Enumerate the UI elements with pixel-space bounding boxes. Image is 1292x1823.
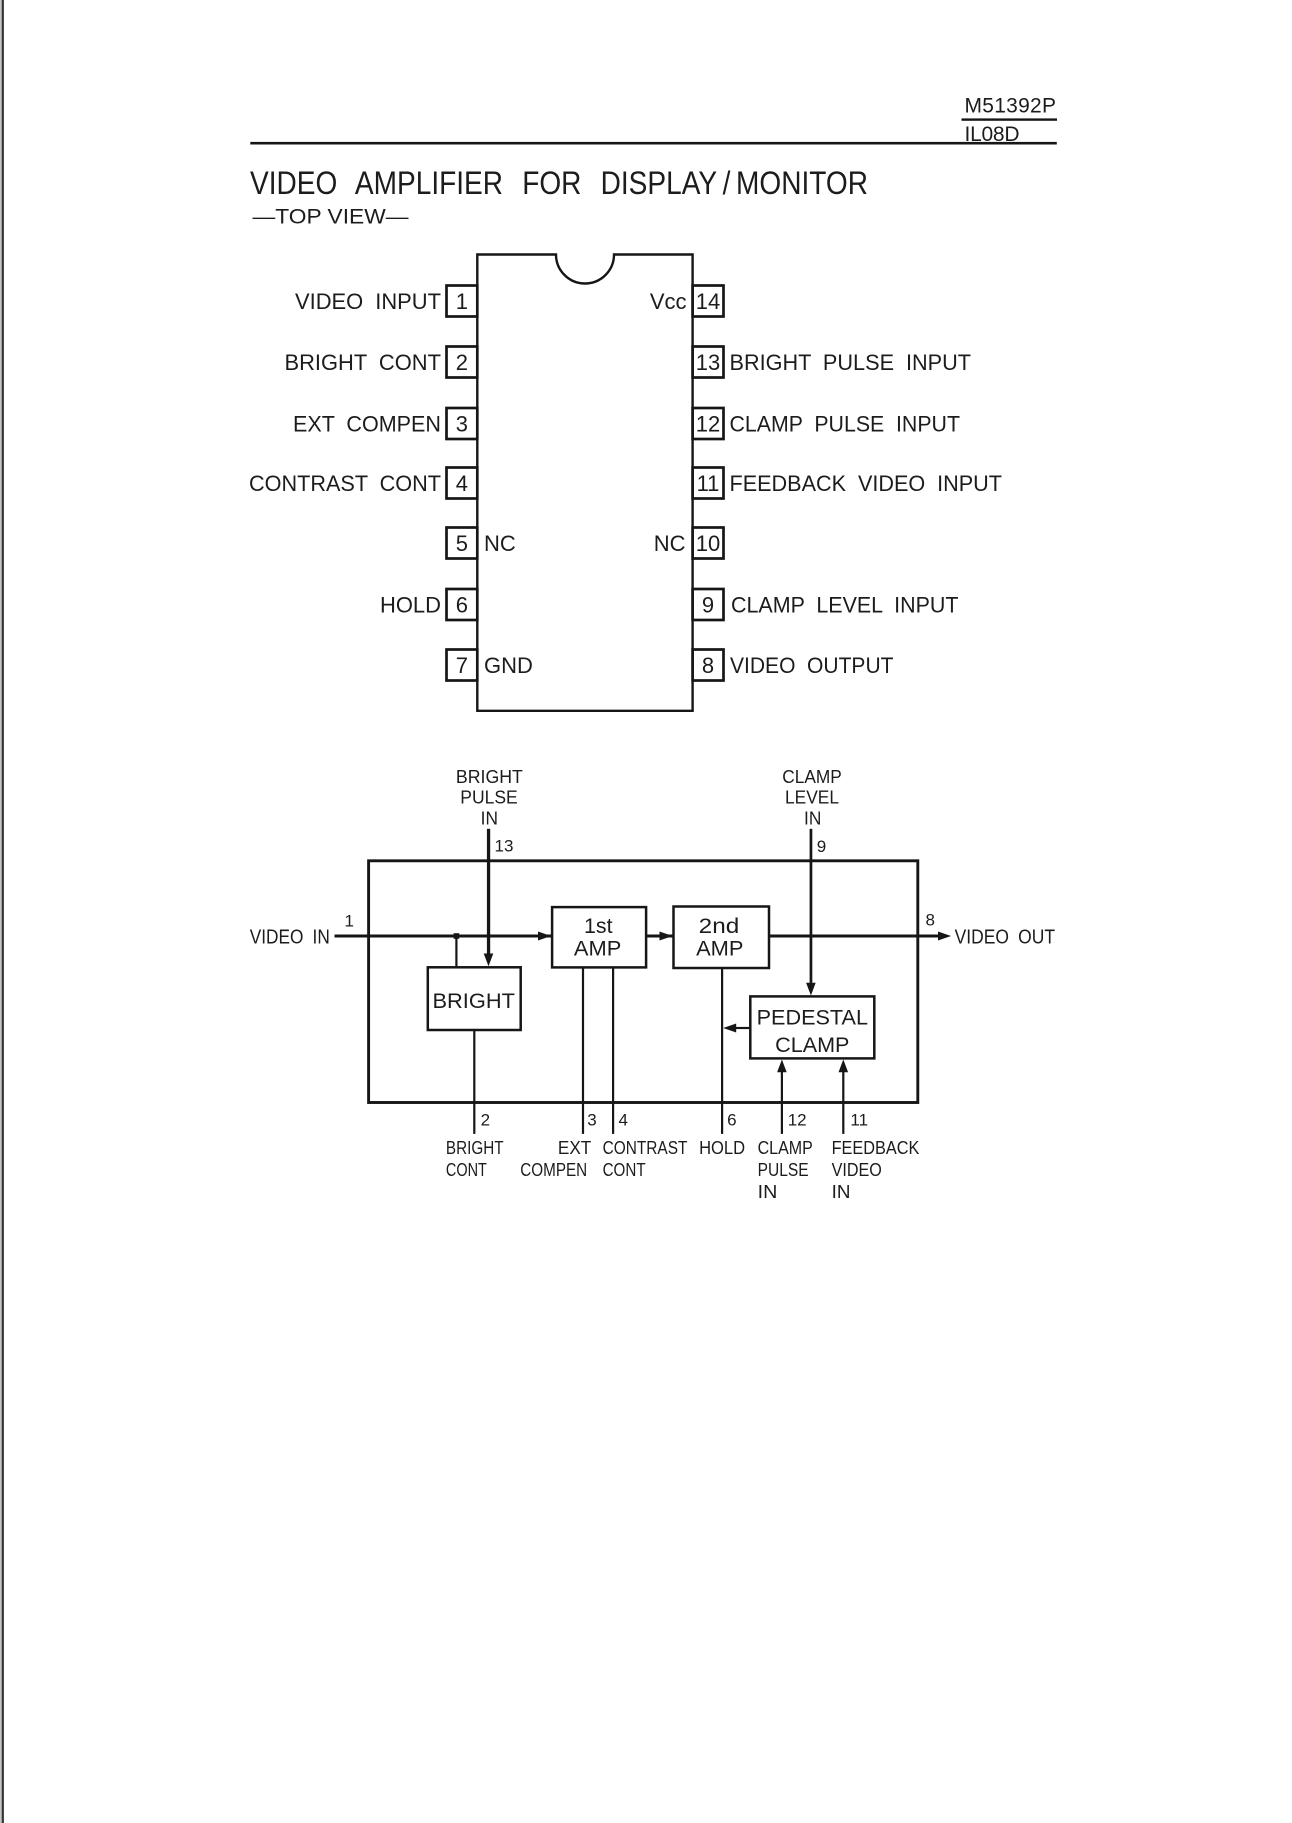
svg-text:1: 1 <box>456 289 468 314</box>
svg-text:EXT: EXT <box>558 1138 591 1158</box>
svg-text:7: 7 <box>456 653 468 678</box>
op-amp block U1a 1st AMP <box>552 907 646 967</box>
svg-text:M51392P: M51392P <box>965 95 1057 118</box>
svg-text:PEDESTAL: PEDESTAL <box>757 1006 868 1029</box>
svg-text:CONTRAST: CONTRAST <box>603 1138 688 1158</box>
underline under part number <box>962 118 1058 120</box>
svg-text:HOLD: HOLD <box>380 593 441 618</box>
pin 2 box <box>447 347 478 378</box>
svg-text:BRIGHT CONT: BRIGHT CONT <box>285 350 442 375</box>
pin 3 box <box>447 408 478 439</box>
wire pin 13 bright pulse input (thick) <box>487 829 490 956</box>
header rule <box>250 142 1057 145</box>
wire pedestal clamp to hold line <box>736 1027 750 1029</box>
svg-text:11: 11 <box>850 1111 868 1130</box>
svg-text:8: 8 <box>926 911 935 930</box>
svg-text:IN: IN <box>758 1182 778 1202</box>
svg-text:6: 6 <box>727 1111 736 1130</box>
svg-text:COMPEN: COMPEN <box>520 1160 587 1180</box>
pin 5 box <box>447 528 478 559</box>
pin 12 box <box>693 408 724 439</box>
svg-text:NC: NC <box>484 531 516 556</box>
svg-text:CONT: CONT <box>603 1160 646 1180</box>
svg-text:2: 2 <box>456 350 468 375</box>
svg-text:3: 3 <box>587 1111 596 1130</box>
svg-text:VIDEO OUTPUT: VIDEO OUTPUT <box>730 653 894 678</box>
svg-text:CONT: CONT <box>446 1160 487 1180</box>
arrow toward hold line <box>723 1024 736 1033</box>
pin 10 box <box>693 528 724 559</box>
svg-text:3: 3 <box>456 412 468 437</box>
svg-text:9: 9 <box>817 837 826 856</box>
svg-text:BRIGHT: BRIGHT <box>433 990 516 1013</box>
svg-text:12: 12 <box>788 1111 807 1130</box>
svg-text:4: 4 <box>456 471 468 496</box>
svg-text:10: 10 <box>696 531 720 556</box>
block PEDESTAL CLAMP <box>750 996 874 1058</box>
svg-text:VIDEO: VIDEO <box>832 1160 882 1180</box>
arrow into PEDESTAL CLAMP bottom (pin12) <box>777 1060 787 1073</box>
wire pin 12 clamp pulse in <box>781 1070 783 1134</box>
svg-text:8: 8 <box>702 653 714 678</box>
svg-text:PULSE: PULSE <box>758 1160 809 1180</box>
wire pin 6 hold <box>721 968 723 1134</box>
pin 6 box <box>447 589 478 620</box>
pin 4 box <box>447 468 478 499</box>
svg-text:1: 1 <box>345 912 354 931</box>
svg-text:EXT COMPEN: EXT COMPEN <box>293 412 441 437</box>
junction node on video line <box>454 933 460 939</box>
arrow into PEDESTAL CLAMP top <box>806 983 816 996</box>
svg-text:2nd: 2nd <box>699 915 740 938</box>
svg-text:BRIGHT: BRIGHT <box>446 1138 504 1158</box>
svg-text:IN: IN <box>804 809 821 829</box>
svg-text:12: 12 <box>696 412 720 437</box>
svg-text:VIDEO INPUT: VIDEO INPUT <box>295 289 441 314</box>
op-amp block U1b 2nd AMP <box>674 907 770 969</box>
pin 14 box <box>693 286 724 317</box>
svg-text:GND: GND <box>484 653 533 678</box>
svg-text:4: 4 <box>619 1111 628 1130</box>
arrow into PEDESTAL CLAMP bottom (pin11) <box>839 1060 849 1073</box>
svg-text:HOLD: HOLD <box>699 1138 745 1158</box>
svg-text:IN: IN <box>481 809 498 829</box>
svg-text:VIDEO OUT: VIDEO OUT <box>955 927 1055 949</box>
svg-text:2: 2 <box>481 1111 490 1130</box>
arrow video out <box>938 932 951 941</box>
arrow into BRIGHT box top <box>484 954 494 967</box>
svg-text:BRIGHT: BRIGHT <box>456 767 523 787</box>
svg-text:NC: NC <box>654 531 686 556</box>
pin 9 box <box>693 589 724 620</box>
arrow into 1st AMP <box>538 932 551 941</box>
pin 11 box <box>693 468 724 499</box>
wire pin 9 clamp level input <box>810 829 813 985</box>
svg-text:Vcc: Vcc <box>650 289 687 314</box>
svg-text:FEEDBACK VIDEO INPUT: FEEDBACK VIDEO INPUT <box>730 471 1003 496</box>
pin 8 box <box>693 650 724 681</box>
svg-text:11: 11 <box>697 471 720 496</box>
arrow into 2nd AMP <box>660 932 673 941</box>
IC package U1 body with index notch <box>477 255 692 711</box>
svg-text:—TOP VIEW—: —TOP VIEW— <box>253 206 409 229</box>
wire pin 4 contrast cont <box>612 967 614 1134</box>
svg-text:5: 5 <box>456 531 468 556</box>
svg-text:CLAMP: CLAMP <box>775 1034 849 1057</box>
wire pin 2 bright cont <box>473 1030 475 1134</box>
svg-text:FEEDBACK: FEEDBACK <box>832 1138 920 1158</box>
block diagram outer box <box>369 861 918 1103</box>
svg-text:IN: IN <box>832 1182 851 1202</box>
wire main video signal line <box>335 935 940 938</box>
svg-text:13: 13 <box>495 837 514 856</box>
pin 1 box <box>447 286 478 317</box>
svg-text:13: 13 <box>696 350 720 375</box>
block BRIGHT <box>428 967 521 1030</box>
page left border <box>0 0 2 1823</box>
svg-text:CONTRAST CONT: CONTRAST CONT <box>249 471 441 496</box>
pin 7 box <box>447 650 478 681</box>
wire pin 11 feedback video in <box>842 1070 844 1134</box>
svg-text:CLAMP LEVEL INPUT: CLAMP LEVEL INPUT <box>731 593 959 618</box>
svg-text:9: 9 <box>702 593 714 618</box>
wire pin 3 ext compen <box>582 967 584 1134</box>
svg-text:1st: 1st <box>584 915 613 938</box>
pin 13 box <box>693 347 724 378</box>
svg-text:BRIGHT PULSE INPUT: BRIGHT PULSE INPUT <box>730 350 972 375</box>
svg-text:14: 14 <box>696 289 720 314</box>
svg-text:6: 6 <box>456 593 468 618</box>
svg-text:CLAMP PULSE INPUT: CLAMP PULSE INPUT <box>730 412 961 437</box>
svg-text:VIDEO IN: VIDEO IN <box>250 927 330 949</box>
svg-text:AMP: AMP <box>696 937 743 960</box>
svg-text:AMP: AMP <box>574 937 621 960</box>
svg-text:LEVEL: LEVEL <box>785 787 839 807</box>
svg-text:CLAMP: CLAMP <box>782 767 842 787</box>
svg-text:PULSE: PULSE <box>460 787 518 807</box>
wire stub video line to BRIGHT <box>455 936 457 967</box>
svg-text:CLAMP: CLAMP <box>758 1138 813 1158</box>
svg-text:VIDEO AMPLIFIER FOR DISPLAY /: VIDEO AMPLIFIER FOR DISPLAY / MONITOR <box>250 165 868 201</box>
